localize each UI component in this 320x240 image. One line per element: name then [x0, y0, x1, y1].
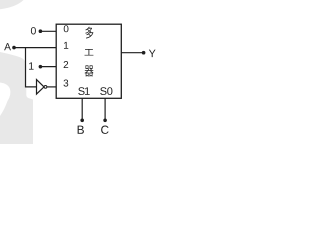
- multiplexer box U1: [56, 24, 121, 98]
- label B: [78, 126, 84, 134]
- wire output Y: [121, 52, 143, 54]
- inverter NOT gate: [37, 80, 45, 95]
- node dot A: [12, 46, 16, 50]
- label 0 input: [31, 27, 36, 34]
- background shade top-left: [0, 0, 24, 9]
- label 器: [85, 65, 94, 76]
- background shade left-bottom: [0, 52, 33, 144]
- wire input 1 to pin2: [40, 66, 56, 68]
- node dot B: [80, 119, 84, 123]
- node dot C: [103, 119, 107, 123]
- label 1 input: [29, 62, 34, 69]
- pin label 0: [64, 25, 69, 32]
- label 工: [85, 49, 94, 56]
- node dot input 1: [39, 65, 43, 69]
- wire branch from A down to inverter: [26, 48, 37, 87]
- label A: [4, 43, 11, 50]
- inverter bubble: [44, 86, 47, 89]
- label 多: [85, 27, 93, 39]
- wire A to pin1: [14, 47, 56, 49]
- white notch on left edge: [0, 83, 10, 117]
- pin label S1: [78, 87, 89, 95]
- pin label 3: [64, 80, 69, 87]
- wire input 0 to pin0: [40, 30, 56, 32]
- pin label 1: [64, 42, 68, 49]
- wire select C: [104, 98, 106, 120]
- label Y: [149, 50, 156, 57]
- node dot Y: [142, 51, 146, 55]
- pin label S0: [100, 87, 112, 95]
- node dot input 0: [39, 29, 43, 33]
- wire inverter to pin3: [47, 86, 56, 88]
- label C: [101, 126, 108, 134]
- pin label 2: [64, 61, 69, 68]
- wire select B: [81, 98, 83, 120]
